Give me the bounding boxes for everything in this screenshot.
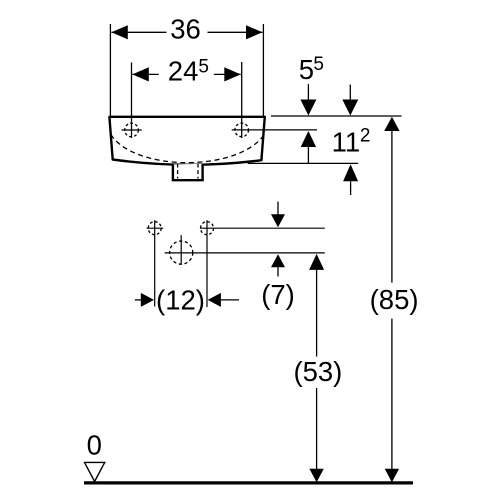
dimension (53) line <box>309 254 324 482</box>
basin bowl dashed arc <box>111 135 264 163</box>
basin bottom level line C <box>248 162 359 164</box>
dimension (7) arrows <box>271 202 285 277</box>
dimension 11.2 arrows <box>342 85 358 195</box>
datum zero label <box>87 430 102 461</box>
dimension 24.5 line and arrows <box>132 67 240 81</box>
tap hole right <box>235 123 249 137</box>
svg-text:(12): (12) <box>156 285 205 316</box>
dimension 36 line and arrows <box>111 25 262 39</box>
dimension 11.2 label <box>332 126 371 158</box>
dimension 36 label <box>170 14 201 45</box>
tap hole left <box>122 123 142 137</box>
supply level line D <box>200 227 325 229</box>
svg-text:5: 5 <box>313 54 324 75</box>
water supply connection left <box>147 220 164 306</box>
floor line <box>84 481 413 484</box>
drain hidden edges (dashed) <box>178 164 198 179</box>
dimension 24.5 label <box>168 56 209 87</box>
datum triangle <box>85 462 105 481</box>
dimension 24.5 extension lines (through tap holes) <box>132 62 242 138</box>
waste outlet circle <box>170 235 193 265</box>
dimension 5.5 label <box>299 54 324 85</box>
svg-text:(85): (85) <box>370 284 419 315</box>
svg-text:0: 0 <box>87 430 102 461</box>
waste level line E <box>165 252 325 254</box>
drain outlet box <box>173 164 203 180</box>
svg-text:11: 11 <box>332 126 361 157</box>
svg-text:(7): (7) <box>261 279 295 310</box>
rim level line A <box>271 115 402 117</box>
svg-text:36: 36 <box>170 14 201 45</box>
dimension (12) arrows <box>135 293 239 307</box>
dimension (53) label <box>293 356 342 387</box>
dimension 5.5 arrows <box>300 84 316 163</box>
dimension (7) label <box>261 279 295 310</box>
svg-text:2: 2 <box>360 126 371 147</box>
svg-text:5: 5 <box>198 57 209 78</box>
svg-text:(53): (53) <box>293 356 342 387</box>
dimension (12) label <box>156 285 205 316</box>
dimension (85) label <box>370 284 419 315</box>
svg-text:24: 24 <box>168 56 199 87</box>
washbasin outline <box>109 117 264 165</box>
tap hole level line B <box>232 129 317 131</box>
dimension 36 extension lines <box>110 24 263 116</box>
svg-text:5: 5 <box>299 54 314 85</box>
water supply connection right <box>201 220 214 307</box>
dimension (85) line <box>384 117 399 482</box>
